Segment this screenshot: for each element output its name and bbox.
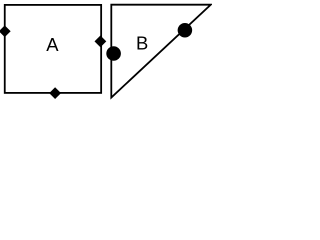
diamond port on left edge of A: [0, 25, 11, 37]
node A (square): [5, 5, 101, 93]
svg-text:A: A: [46, 34, 59, 55]
diamond port on bottom edge of A: [49, 87, 61, 99]
circle port on hypotenuse of B: [178, 23, 193, 38]
node B (right triangle): [111, 5, 211, 98]
diamond port on right edge of A: [95, 36, 107, 48]
svg-text:B: B: [136, 32, 148, 53]
circle port on left edge of B: [106, 46, 121, 61]
